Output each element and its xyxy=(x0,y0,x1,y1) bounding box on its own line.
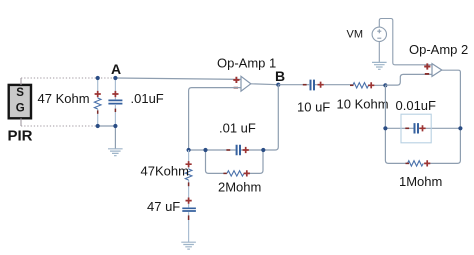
voltmeter VM xyxy=(372,27,386,41)
svg-text:10 Kohm: 10 Kohm xyxy=(337,97,389,112)
wire node B to 10uF and 10 Kohm xyxy=(278,84,385,87)
wire op-amp1 - input to node C xyxy=(189,88,241,150)
svg-text:A: A xyxy=(111,61,121,77)
svg-text:47 uF: 47 uF xyxy=(147,199,180,214)
wire node down to feedback network xyxy=(384,85,386,128)
svg-text:Op-Amp 2: Op-Amp 2 xyxy=(409,42,468,57)
svg-text:G: G xyxy=(16,102,25,114)
capacitor 0.01uF (horizontal) xyxy=(405,123,425,133)
wire C1 bottom to ground xyxy=(114,126,116,149)
resistor R1 47 Kohm (vertical) xyxy=(94,78,101,126)
capacitor 47 uF (vertical) xyxy=(182,198,196,243)
resistor 47Kohm (vertical) xyxy=(185,150,192,207)
svg-text:Op-Amp 1: Op-Amp 1 xyxy=(217,56,276,71)
svg-text:B: B xyxy=(275,68,285,84)
node after 10 Kohm xyxy=(383,83,387,87)
capacitor C1 .01uF (vertical) xyxy=(108,78,122,126)
svg-text:47 Kohm: 47 Kohm xyxy=(38,91,90,106)
svg-text:.01uF: .01uF xyxy=(131,91,164,106)
op-amp U2 xyxy=(424,63,442,76)
node A xyxy=(113,76,117,80)
wire VM top to op-amp2 + input xyxy=(379,19,432,65)
selection box around 0.01uF xyxy=(401,114,431,143)
feedback rail y=150 xyxy=(189,149,264,151)
svg-text:S: S xyxy=(16,87,24,99)
svg-text:VM: VM xyxy=(347,29,364,41)
resistor 2Mohm branch xyxy=(206,150,264,177)
ground under 47 uF xyxy=(181,242,196,249)
wire PIR G pin to node (dotted) xyxy=(21,118,98,126)
capacitor 10 uF (horizontal) xyxy=(303,80,324,91)
svg-text:2Mohm: 2Mohm xyxy=(218,180,261,195)
capacitor .01 uF (horizontal on rail) xyxy=(226,145,248,155)
wire node A to op-amp1 + input xyxy=(115,78,241,79)
wire PIR S pin to node (dotted) xyxy=(21,78,115,85)
wire op-amp1 output to node B xyxy=(251,83,278,86)
svg-text:.01 uF: .01 uF xyxy=(219,120,256,135)
wire op-amp2 output down to feedback rail xyxy=(442,70,461,128)
node B xyxy=(276,83,280,87)
svg-text:0.01uF: 0.01uF xyxy=(396,98,437,113)
feedback rail op-amp2 xyxy=(385,127,460,129)
ground under VM xyxy=(372,62,387,69)
resistor 10 Kohm (horizontal) xyxy=(350,82,374,88)
junction dots on feedback rail xyxy=(187,148,191,152)
wire node B down to feedback rail xyxy=(263,85,278,150)
PIR sensor module xyxy=(9,85,31,118)
wire node to op-amp2 - input xyxy=(385,74,432,85)
wire VM bottom to ground xyxy=(378,42,380,63)
op-amp U1 xyxy=(233,76,251,91)
svg-text:PIR: PIR xyxy=(8,128,33,145)
svg-text:1Mohm: 1Mohm xyxy=(399,174,442,189)
svg-text:10 uF: 10 uF xyxy=(297,100,330,115)
svg-text:47Kohm: 47Kohm xyxy=(141,164,189,179)
wire bottom rail R1 bottom to C1 bottom xyxy=(98,125,116,127)
resistor 1Mohm branch xyxy=(385,128,460,166)
ground under C1 xyxy=(108,149,123,156)
junction dots feedback rail xyxy=(383,126,387,130)
